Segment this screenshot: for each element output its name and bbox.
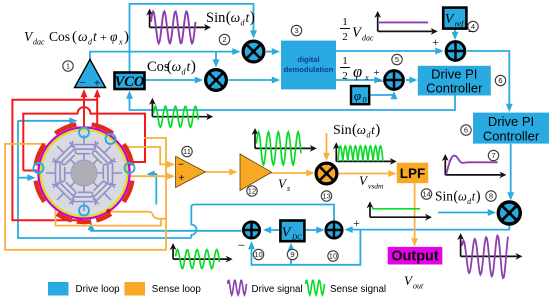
wire cos multiplier to demodulation	[229, 77, 281, 84]
wire summer 10L to bottom electrode	[88, 222, 242, 231]
svg-text:V: V	[445, 12, 455, 27]
drive PI controller 2	[473, 113, 549, 144]
svg-text:−: −	[468, 24, 475, 39]
svg-text:14: 14	[422, 190, 430, 199]
svg-text:dac: dac	[362, 34, 374, 43]
svg-text:VCO: VCO	[115, 74, 145, 90]
node label 14	[421, 189, 431, 199]
svg-text:ω: ω	[357, 122, 366, 137]
svg-text:Drive loop: Drive loop	[76, 284, 121, 295]
svg-text:V: V	[282, 226, 292, 241]
Vref reference box	[443, 8, 466, 29]
svg-text:11: 11	[183, 147, 191, 156]
node label 7	[488, 150, 498, 160]
LPF low pass filter	[397, 163, 428, 184]
summer S5 phase error	[385, 71, 404, 90]
wire Vref to summer 4	[452, 29, 459, 40]
svg-text:LPF: LPF	[400, 166, 426, 181]
wire VCO cos output to multiplier	[145, 77, 204, 84]
legend sense loop swatch	[125, 282, 146, 296]
svg-text:2: 2	[342, 70, 348, 82]
svg-text:Sin: Sin	[333, 123, 352, 138]
svg-text:Sense loop: Sense loop	[152, 284, 202, 295]
wire sin reference into multiplier 8	[438, 209, 496, 216]
axis of sense signal plot below cos	[149, 98, 213, 120]
svg-text:−: −	[238, 238, 245, 253]
svg-text:): )	[476, 189, 481, 205]
op-amp U12 gain amplifier	[240, 154, 272, 191]
svg-text:+: +	[353, 216, 360, 230]
node label 13	[321, 191, 331, 201]
gyroscope SE contact	[106, 209, 110, 213]
waveform green sine below cos	[153, 106, 198, 127]
wire drive injection to west electrode	[18, 174, 36, 181]
svg-text:12: 12	[248, 187, 256, 196]
wire summer 10R up to drive injection line	[194, 205, 334, 221]
node label 8	[486, 191, 496, 201]
svg-text:ω: ω	[172, 59, 182, 74]
svg-text:x: x	[364, 73, 369, 82]
wire amp 12 to multiplier 13	[270, 170, 315, 177]
label Vdac Cos drive voltage	[24, 29, 129, 47]
wire LPF to output box	[411, 183, 418, 246]
wire phi0 to summer 5	[369, 91, 397, 99]
op-amp U11 sense pickoff amplifier	[176, 156, 206, 187]
svg-text:Sin: Sin	[435, 189, 453, 204]
wire sense SW electrode	[56, 206, 162, 226]
axis of bottom sense plot	[170, 243, 233, 262]
VCO oscillator	[115, 73, 145, 91]
summer S4 amplitude error	[446, 42, 465, 61]
svg-text:): )	[375, 122, 380, 138]
label sin omega t top	[206, 9, 255, 28]
waveform green sine bottom	[176, 250, 220, 269]
svg-text:9: 9	[290, 250, 294, 259]
waveform purple step response	[446, 156, 497, 175]
axis of drive signal plot 1	[146, 9, 211, 31]
svg-text:1: 1	[66, 62, 70, 71]
multiplier M8 drive modulator	[498, 202, 520, 224]
waveform green sine above amp 12	[257, 132, 302, 165]
wire branch down to cos multiplier 3	[213, 52, 220, 68]
node label 6b	[461, 125, 471, 135]
svg-text:Controller: Controller	[483, 129, 540, 144]
node label 2	[219, 34, 229, 44]
node label 5	[392, 54, 402, 64]
svg-text:(: (	[72, 29, 77, 45]
legend sense signal squiggle	[306, 280, 325, 295]
wire sense NE electrode to amp 11 upper input	[128, 147, 176, 168]
node label 10L	[253, 249, 263, 259]
gyroscope body	[38, 127, 129, 218]
svg-text:10: 10	[254, 250, 262, 259]
axis of dc amplitude plot	[374, 11, 437, 35]
node label 12	[247, 186, 257, 196]
wire sin reference into multiplier 13	[323, 133, 330, 161]
svg-text:10: 10	[329, 252, 337, 261]
svg-text:3: 3	[294, 26, 298, 35]
phi0 reference box	[351, 86, 369, 105]
summer S10L drive minus	[243, 222, 259, 238]
label half phi x	[340, 55, 369, 82]
svg-text:s: s	[287, 184, 290, 193]
wire sin multiplier to demodulation	[266, 48, 280, 55]
svg-text:1: 1	[342, 55, 348, 67]
svg-text:−: −	[378, 74, 385, 88]
wire amp 11 to amp 12	[205, 169, 238, 176]
multiplier M3 cos demod	[206, 70, 227, 91]
axis of step response plot 7	[442, 154, 507, 178]
wire summer 5 to drive PI controller 1	[406, 77, 418, 84]
node label 9	[287, 249, 297, 259]
svg-text:ω: ω	[458, 190, 467, 204]
svg-text:Sense signal: Sense signal	[330, 284, 386, 295]
multiplier M2 sin demod	[243, 41, 264, 62]
wire sense NW electrode loop	[5, 138, 166, 250]
node label 1	[63, 61, 73, 71]
waveform purple growing oscillation	[462, 236, 508, 278]
svg-text:ω: ω	[231, 10, 241, 25]
wire drive injection to top-left electrode	[18, 117, 78, 124]
wire multiplier 8 output to summer 10R	[345, 224, 510, 233]
legend drive signal squiggle	[228, 280, 247, 295]
svg-text:Sin: Sin	[206, 10, 226, 26]
axis of LPF output plot	[367, 201, 432, 220]
waveform purple dc line	[379, 21, 428, 23]
svg-text:−: −	[79, 76, 86, 90]
svg-text:vsdm: vsdm	[368, 182, 384, 191]
wire summer 4 to drive PI controller 2	[467, 51, 513, 112]
label sin omega t bottom	[435, 189, 481, 207]
wire VDC to right summer	[305, 227, 325, 234]
wire amplifier 1 output to multiplier 2	[90, 48, 241, 60]
svg-text:φ: φ	[354, 88, 361, 103]
svg-text:2: 2	[342, 31, 348, 43]
axis of sense plot above amp 12	[252, 128, 317, 152]
svg-text:5: 5	[395, 55, 399, 64]
wire sense E electrode to amp 11 lower input	[131, 173, 176, 180]
svg-text:out: out	[413, 282, 424, 291]
wire feedback branch to VDC bottom	[288, 243, 295, 265]
svg-text:6: 6	[498, 76, 502, 85]
wire demod phase output to summer 5	[336, 77, 383, 84]
svg-text:x: x	[118, 38, 123, 47]
waveform green dc line	[372, 208, 420, 210]
wire red west electrode stub	[23, 170, 37, 172]
wire feedback tap to summer 10L minus	[248, 230, 360, 265]
wire red feedback to amplifier plus input	[94, 89, 101, 129]
wire red feedback to amplifier minus input	[81, 89, 88, 128]
node label 10R	[328, 251, 338, 261]
label cos omega t	[147, 58, 196, 77]
legend drive loop swatch	[48, 282, 69, 296]
wire sense SE electrode jog	[110, 212, 166, 219]
wire drive line down with hop	[191, 205, 196, 239]
waveform purple sine drive signal	[151, 11, 196, 43]
svg-text:ω: ω	[78, 29, 88, 44]
svg-text:7: 7	[491, 151, 495, 160]
svg-text:DC: DC	[291, 234, 302, 242]
svg-text:+: +	[94, 76, 101, 90]
op-amp U1 drive amplifier	[75, 60, 106, 90]
wire VCO sin reference to multiplier 2	[130, 4, 257, 73]
svg-text:6: 6	[464, 126, 468, 135]
digital demodulation block	[281, 41, 336, 90]
wire multiplier 13 to LPF	[338, 170, 397, 177]
svg-text:Drive PI: Drive PI	[431, 67, 477, 82]
svg-text:Output: Output	[391, 249, 439, 265]
wire VDC to left summer	[263, 227, 280, 234]
drive PI controller 1	[418, 66, 491, 96]
svg-text:+: +	[432, 35, 439, 49]
svg-text:+: +	[179, 173, 185, 184]
summer S10R drive plus	[326, 222, 342, 238]
svg-text:13: 13	[322, 192, 330, 201]
svg-text:+: +	[100, 30, 107, 44]
gyroscope comb fingers and center anchor	[47, 136, 122, 211]
svg-text:demodulation: demodulation	[284, 65, 334, 74]
svg-text:Controller: Controller	[426, 81, 483, 96]
svg-text:digital: digital	[297, 55, 319, 64]
node label 4	[468, 21, 478, 31]
svg-text:dac: dac	[33, 38, 45, 47]
waveform green rectified sine	[338, 146, 383, 162]
svg-text:Drive PI: Drive PI	[488, 114, 534, 129]
axis of demodulated plot above multiplier 13	[333, 142, 397, 164]
node label 3	[291, 25, 301, 35]
multiplier M13 sense demod	[316, 163, 337, 184]
svg-text:φ: φ	[353, 62, 362, 81]
svg-text:8: 8	[489, 192, 493, 201]
svg-text:1: 1	[342, 16, 348, 28]
axis of startup oscillation plot	[457, 233, 522, 260]
svg-text:φ: φ	[110, 29, 118, 44]
wire demod amplitude output to summer 4	[336, 48, 444, 55]
label half Vdac	[340, 16, 374, 43]
wire drive injection branch to east electrode	[147, 171, 157, 205]
svg-text:−: −	[178, 160, 184, 171]
svg-text:Drive signal: Drive signal	[252, 284, 303, 295]
wire red lower loop with hop	[23, 107, 145, 170]
gyroscope pickoff rings	[34, 128, 135, 216]
svg-text:): )	[191, 58, 196, 75]
wire drive line bottom to left riser	[18, 121, 191, 238]
node label 6a	[495, 75, 505, 85]
svg-text:): )	[124, 29, 129, 45]
VDC bias box	[280, 221, 304, 242]
gyroscope electrodes	[36, 125, 133, 222]
wire red upper loop	[12, 100, 97, 221]
output box	[388, 247, 443, 265]
svg-text:2: 2	[222, 35, 226, 44]
node label 11	[182, 146, 192, 156]
svg-text:0: 0	[363, 96, 367, 105]
svg-text:): )	[250, 9, 255, 26]
label sin omega t mid	[333, 122, 380, 140]
wire drive PI 2 to multiplier 8	[507, 144, 514, 201]
wire drive PI 1 to VCO control	[126, 91, 455, 111]
svg-text:Cos: Cos	[49, 29, 70, 44]
